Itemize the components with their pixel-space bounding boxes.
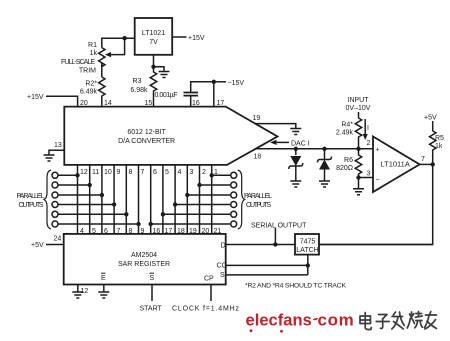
wire to pin 3 [359, 177, 374, 179]
resistor R3 6.98k [150, 67, 156, 107]
pin 24 label [54, 236, 62, 243]
svg-text:10: 10 [104, 169, 112, 176]
svg-text:INPUT: INPUT [348, 97, 370, 104]
junction D1 [294, 147, 298, 151]
svg-text:−: − [376, 177, 380, 184]
wire to serial output [274, 228, 276, 245]
wire D to latch [226, 244, 295, 246]
terminal L5 + wire [52, 211, 58, 217]
wire U2 bottom to R3 [153, 55, 155, 67]
pin 18 label [254, 154, 262, 161]
resistor R1 (full-scale trim pot) [99, 48, 105, 67]
R1 wiper arrow [108, 38, 124, 54]
net INPUT 0V-10V [346, 97, 371, 112]
C1 label [155, 92, 178, 99]
wire latch bottom [307, 255, 309, 275]
terminal R6 + wire [231, 221, 237, 227]
R2 labels [80, 81, 98, 96]
svg-text:7: 7 [421, 156, 425, 163]
terminal R4 + wire [231, 202, 237, 208]
svg-text:CP: CP [204, 276, 214, 283]
svg-text:R5: R5 [435, 135, 444, 142]
SAR register U4 AM2504 [64, 234, 226, 285]
R6 labels [336, 157, 353, 172]
junction R6 bottom [356, 175, 360, 179]
svg-text:com: com [318, 311, 354, 330]
svg-text:PARALLEL: PARALLEL [17, 193, 45, 200]
svg-text:OUTPUTS: OUTPUTS [19, 202, 44, 209]
svg-text:LT1021: LT1021 [142, 30, 165, 37]
wire U2 output to +15V [172, 36, 186, 38]
pin CC label [217, 263, 227, 270]
pin 2 label [367, 140, 371, 147]
ground (pin 12) [72, 292, 83, 298]
pin 13 label [54, 142, 62, 149]
comparator U3 LT1011A [373, 137, 420, 193]
svg-text:START: START [140, 306, 163, 313]
junction wiper/top [122, 36, 126, 40]
svg-text:R6: R6 [344, 157, 353, 164]
svg-text:LATCH: LATCH [296, 247, 318, 254]
wire node to pin 17 [213, 82, 215, 107]
schottky diode D1 (clamp down) [295, 149, 297, 155]
ground (R6) [353, 189, 364, 195]
wire output [420, 163, 433, 165]
svg-text:6: 6 [153, 169, 157, 176]
svg-text:SERIAL OUTPUT: SERIAL OUTPUT [251, 223, 307, 230]
svg-text:12: 12 [80, 169, 88, 176]
svg-text:TRIM: TRIM [79, 68, 96, 75]
ground (D2) [319, 181, 330, 187]
svg-text:2: 2 [367, 140, 371, 147]
wire cap bottom to pin 16 [190, 96, 192, 107]
terminal L1 + wire [52, 172, 58, 178]
svg-text:DAC I: DAC I [291, 141, 310, 148]
pin E wire to ground [103, 285, 105, 293]
ground (pin 13) [44, 155, 55, 161]
CLOCK label [172, 306, 240, 313]
wire latch out [319, 244, 433, 246]
svg-text:I: I [367, 125, 369, 132]
pin 7 label [421, 156, 425, 163]
pin 14 label [104, 100, 112, 107]
svg-text:3: 3 [367, 171, 371, 178]
svg-text:2.49k: 2.49k [336, 130, 354, 137]
wire CC to latch clock [226, 264, 308, 266]
junctions left bus [75, 173, 140, 226]
latch U5 7475 [295, 234, 319, 255]
capacitor C1 0.001uF [184, 93, 199, 96]
wire S out [226, 274, 308, 276]
svg-text:6.49k: 6.49k [80, 89, 98, 96]
svg-text:14: 14 [104, 100, 112, 107]
svg-text:S: S [220, 272, 225, 279]
wire pin 13 to ground [49, 150, 64, 155]
wire pin 18 output node to comparator [255, 148, 373, 150]
net +5V (pullup) [424, 115, 437, 122]
parallel bus: 12 vertical wires DAC to SAR [78, 165, 212, 234]
svg-text:17: 17 [217, 100, 225, 107]
pin 17 label [217, 100, 225, 107]
svg-text:PARALLEL: PARALLEL [244, 193, 272, 200]
I label [367, 125, 369, 132]
svg-text:3: 3 [190, 169, 194, 176]
terminal L2 + wire [52, 182, 58, 188]
svg-text:6012 12-BIT: 6012 12-BIT [127, 129, 166, 136]
svg-text:9: 9 [117, 169, 121, 176]
net +15V (reference supply) [188, 35, 205, 42]
svg-text:R4*: R4* [341, 122, 353, 129]
terminal L6 + wire [52, 221, 58, 227]
svg-text:R2*: R2* [85, 81, 97, 88]
ground (pin 19) [290, 129, 301, 135]
PARALLEL OUTPUTS label left [17, 193, 45, 209]
PARALLEL OUTPUTS label right [244, 193, 272, 209]
U1 name label [118, 129, 175, 145]
svg-text:R1: R1 [88, 42, 97, 49]
junction -15V node [212, 80, 216, 84]
svg-text:+15V: +15V [188, 35, 205, 42]
svg-text:820Ω: 820Ω [336, 165, 353, 172]
svg-text:19: 19 [253, 115, 261, 122]
left output terminal row [52, 172, 139, 227]
wire to ground [154, 67, 165, 72]
junction CC node [306, 263, 310, 267]
net +15V (DAC supply, pin 20) [27, 94, 44, 101]
wire input to R4 [358, 112, 360, 118]
svg-text:7V: 7V [149, 39, 158, 46]
ground (reference) [159, 72, 170, 78]
svg-text:18: 18 [254, 154, 262, 161]
terminal R3 + wire [231, 192, 237, 198]
terminal L3 + wire [52, 192, 58, 198]
START label [140, 306, 163, 313]
pin S label (start, active low) [150, 273, 155, 282]
svg-text:1k: 1k [435, 143, 443, 150]
junction output node [431, 162, 435, 166]
svg-text:E: E [101, 275, 106, 282]
wire cap top to -15V node [191, 82, 214, 93]
svg-text:D: D [221, 243, 226, 250]
left brace [44, 170, 51, 229]
R4 labels [336, 122, 354, 137]
terminal R1 + wire [231, 172, 237, 178]
pin 12 wire to ground [77, 285, 79, 293]
svg-text:5: 5 [165, 169, 169, 176]
svg-text:+5V: +5V [424, 115, 437, 122]
svg-text:16: 16 [192, 100, 200, 107]
pin 15 label [145, 100, 153, 107]
svg-text:−15V: −15V [228, 80, 245, 87]
wire CP to clock [210, 285, 212, 302]
junctions right bus [149, 173, 214, 226]
ground (E) [98, 292, 109, 298]
watermark elecfans.com [246, 311, 354, 333]
wire output down to latch [319, 164, 433, 244]
svg-text:FULL-SCALE: FULL-SCALE [61, 59, 95, 66]
svg-text:S: S [150, 275, 155, 282]
resistor R2* 6.49k [99, 77, 105, 107]
svg-text:CLOCK f=1.4MHz: CLOCK f=1.4MHz [172, 306, 240, 313]
wire +15V to pin 20 [46, 96, 78, 106]
pin 19 label [253, 115, 261, 122]
watermark chinese 电子发烧友 [360, 312, 437, 330]
svg-text:OUTPUTS: OUTPUTS [246, 202, 271, 209]
ground (D1) [290, 181, 301, 187]
pin CP label [204, 276, 214, 283]
right brace [238, 170, 245, 229]
svg-text:8: 8 [129, 169, 133, 176]
wire R1 bottom to R2 top [101, 63, 103, 77]
U2 value label [142, 30, 165, 46]
wire node to -15V [214, 81, 226, 83]
svg-text:1k: 1k [90, 50, 98, 57]
right output terminal row [151, 172, 237, 227]
svg-text:SAR REGISTER: SAR REGISTER [118, 261, 170, 268]
schottky diode D2 (clamp up) [324, 149, 326, 160]
terminal R5 + wire [231, 211, 237, 217]
R3 labels [130, 78, 148, 94]
R5 labels [435, 135, 444, 150]
SAR top pin labels [80, 228, 221, 235]
svg-text:24: 24 [54, 236, 62, 243]
svg-text:LT1011A: LT1011A [381, 160, 410, 169]
svg-text:+: + [376, 147, 380, 154]
svg-text:elecfans: elecfans [246, 312, 312, 330]
DAC I arrow [276, 141, 289, 143]
current arrow I [364, 119, 366, 136]
junction U2 gnd node [151, 65, 155, 69]
svg-text:11: 11 [92, 169, 99, 176]
svg-text:13: 13 [54, 142, 62, 149]
svg-text:0V–10V: 0V–10V [346, 105, 371, 112]
svg-text:*R2 AND *R4 SHOULD TC TRACK: *R2 AND *R4 SHOULD TC TRACK [245, 283, 346, 290]
pin 3 label [367, 171, 371, 178]
wire S to START [151, 285, 153, 302]
svg-text:15: 15 [145, 100, 153, 107]
svg-text:7: 7 [141, 169, 145, 176]
resistor R6 820ohm [355, 149, 361, 178]
pin E label (active low) [101, 273, 106, 282]
svg-text:CC: CC [217, 263, 227, 270]
svg-text:7475: 7475 [300, 239, 316, 246]
pin 16 label [192, 100, 200, 107]
svg-text:AM2504: AM2504 [131, 252, 157, 259]
pin D label [221, 243, 226, 250]
junction D2 [322, 147, 326, 151]
svg-text:4: 4 [178, 169, 182, 176]
svg-text:+5V: +5V [31, 242, 44, 249]
note text [245, 283, 346, 290]
DAC I label [291, 141, 310, 148]
junction R4/R6 node [356, 147, 360, 151]
svg-text:R3: R3 [133, 78, 142, 85]
SERIAL OUTPUT label [251, 223, 307, 230]
svg-text:+15V: +15V [27, 94, 44, 101]
wire +5V to pin 24 [46, 244, 64, 246]
pin S out label [220, 272, 225, 279]
R1 labels [61, 42, 97, 75]
resistor R4* 2.49k [355, 118, 361, 149]
DAC U1 6012 body [64, 107, 277, 165]
wire R6 to ground [358, 178, 360, 189]
net +5V (SAR supply) [31, 242, 44, 249]
svg-text:D/A CONVERTER: D/A CONVERTER [118, 138, 175, 145]
junction serial output [273, 242, 277, 246]
pin 20 label [80, 100, 88, 107]
svg-text:6.98k: 6.98k [130, 87, 148, 94]
svg-text:20: 20 [80, 100, 88, 107]
DAC bottom pin labels 12..1 [80, 169, 218, 176]
resistor R5 1k [430, 131, 436, 164]
svg-text:0.001µF: 0.001µF [155, 92, 178, 99]
wire R1 top to U2 input [102, 38, 135, 47]
pin 12 label [81, 288, 89, 295]
voltage reference U2 LT1021 [135, 18, 173, 55]
wire pin 19 to ground [255, 124, 296, 129]
terminal R2 + wire [231, 182, 237, 188]
wire +5V to R5 [432, 121, 434, 131]
svg-text:2: 2 [202, 169, 206, 176]
net -15V [228, 80, 245, 87]
terminal L4 + wire [52, 202, 58, 208]
